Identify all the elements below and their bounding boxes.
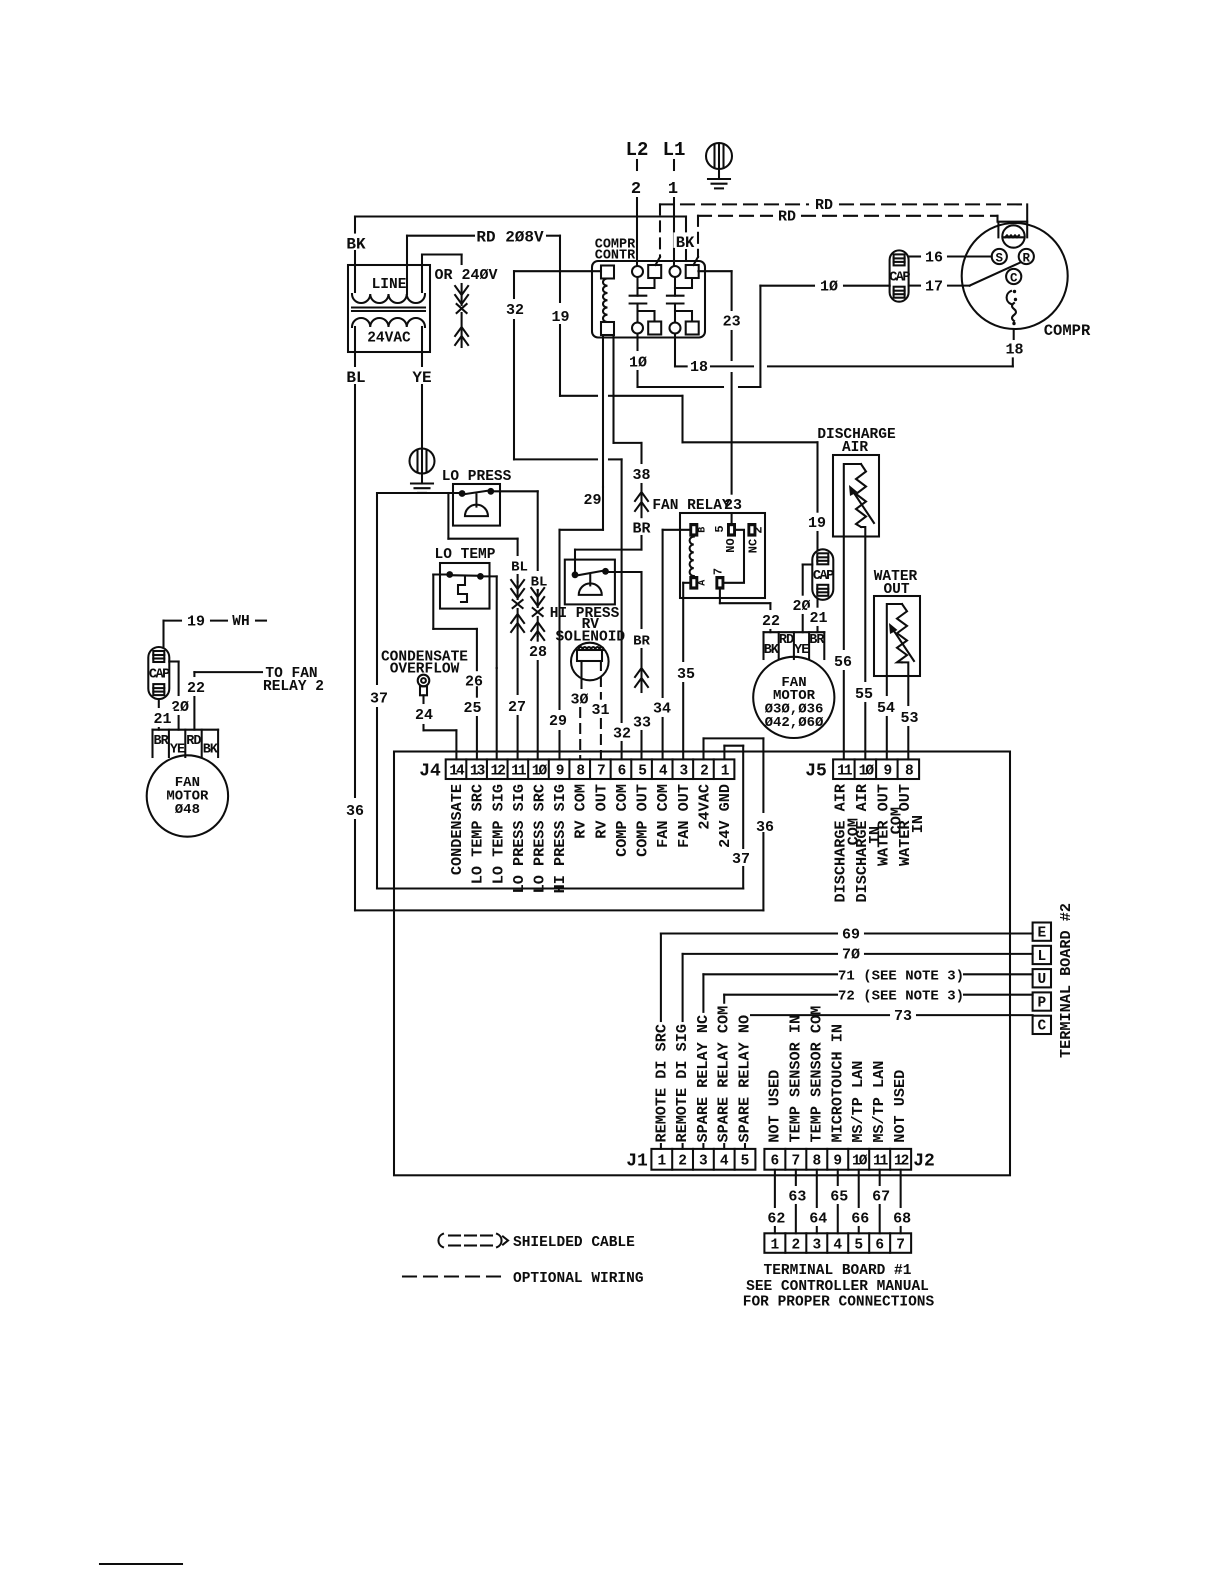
svg-text:AIR: AIR (842, 440, 868, 456)
wire 19 branch (612, 336, 614, 443)
wire 72 (724, 994, 837, 996)
svg-text:24: 24 (415, 707, 433, 724)
compressor internal overload housing (998, 222, 1027, 238)
svg-text:2: 2 (752, 526, 766, 533)
wire 30 (580, 661, 582, 688)
wire RD 208V (406, 236, 408, 294)
svg-text:12: 12 (491, 763, 506, 779)
svg-text:BR: BR (809, 633, 825, 648)
wire 17 (909, 285, 920, 287)
svg-text:SPARE RELAY COM: SPARE RELAY COM (715, 1006, 733, 1143)
svg-text:Ø42,Ø6Ø: Ø42,Ø6Ø (765, 715, 824, 731)
transformer 24VAC (348, 265, 430, 352)
svg-text:19: 19 (808, 515, 826, 532)
svg-text:COMP OUT: COMP OUT (634, 784, 652, 857)
svg-text:J5: J5 (805, 762, 827, 782)
svg-text:18: 18 (690, 359, 708, 376)
wire 29 (602, 336, 604, 487)
svg-text:4: 4 (833, 1237, 842, 1253)
svg-text:9: 9 (833, 1153, 842, 1169)
wire 19 WH (left motor) (164, 620, 182, 622)
compressor terminal R (1019, 249, 1034, 264)
svg-text:66: 66 (851, 1210, 869, 1227)
svg-text:1: 1 (668, 180, 678, 199)
svg-text:29: 29 (549, 713, 567, 730)
wire RD optional (upper dashed) (660, 203, 808, 205)
wire 10 (636, 334, 638, 351)
svg-text:HI PRESS SIG: HI PRESS SIG (551, 784, 569, 893)
svg-text:37: 37 (732, 851, 750, 868)
svg-text:3: 3 (812, 1237, 821, 1253)
svg-text:68: 68 (893, 1210, 911, 1227)
wire 62 (774, 1170, 776, 1207)
svg-text:BK: BK (764, 643, 780, 658)
svg-text:TEMP SENSOR COM: TEMP SENSOR COM (807, 1006, 825, 1143)
svg-text:COMP COM: COMP COM (613, 784, 631, 857)
fan motor 048 connector (151, 730, 153, 757)
svg-text:4: 4 (720, 1153, 729, 1169)
svg-text:FOR PROPER CONNECTIONS: FOR PROPER CONNECTIONS (743, 1295, 935, 1311)
svg-text:32: 32 (613, 725, 631, 742)
svg-text:16: 16 (925, 249, 943, 266)
wire TO FAN RELAY 2 (194, 671, 262, 673)
svg-text:WH: WH (232, 614, 249, 630)
wire 69 (661, 932, 837, 934)
relay coil pin B (689, 523, 698, 537)
svg-text:P: P (1037, 995, 1046, 1011)
ground (24VAC secondary) (410, 449, 435, 474)
wire 26 (480, 575, 496, 577)
svg-text:24VAC: 24VAC (367, 331, 411, 347)
J1 pin labels (654, 1022, 667, 1143)
svg-text:C: C (1037, 1019, 1046, 1035)
svg-text:5: 5 (713, 525, 727, 532)
svg-text:NC: NC (747, 539, 761, 553)
svg-text:29: 29 (583, 492, 601, 509)
svg-text:1Ø: 1Ø (629, 354, 647, 371)
wire 65 (837, 1170, 839, 1185)
wire 20 (left motor) (169, 660, 178, 662)
svg-text:C: C (1010, 271, 1018, 285)
svg-text:BR: BR (153, 734, 169, 749)
wire 21 (left motor) (158, 699, 160, 707)
svg-text:RV OUT: RV OUT (592, 784, 610, 839)
svg-text:CONDENSATE: CONDENSATE (448, 784, 466, 875)
wire L1 to contactor (673, 198, 675, 266)
svg-text:SPARE RELAY NC: SPARE RELAY NC (694, 1015, 712, 1143)
wire 54 (886, 676, 888, 695)
svg-text:38: 38 (632, 467, 650, 484)
contactor coil (603, 279, 608, 323)
svg-text:FAN COM: FAN COM (654, 784, 672, 848)
svg-text:MS/TP LAN: MS/TP LAN (870, 1061, 888, 1143)
svg-text:11: 11 (873, 1153, 889, 1169)
capacitor CAP (fan motor 030) (812, 549, 833, 600)
wire RD optional (lower dashed) (698, 215, 772, 217)
svg-text:R: R (1023, 251, 1031, 265)
relay pin 2 NC (747, 523, 756, 537)
svg-text:62: 62 (767, 1210, 785, 1227)
contactor coil terminals (601, 266, 614, 279)
svg-text:RELAY 2: RELAY 2 (263, 679, 324, 695)
wire 32 (514, 270, 601, 272)
wire 20 (right motor) (803, 563, 813, 565)
relay pin 7 (715, 576, 724, 590)
wire 73 (745, 1014, 889, 1016)
svg-text:SEE CONTROLLER MANUAL: SEE CONTROLLER MANUAL (746, 1279, 929, 1295)
svg-text:36: 36 (346, 803, 364, 820)
wire 38 (614, 442, 642, 444)
svg-text:TERMINAL BOARD #1: TERMINAL BOARD #1 (764, 1263, 912, 1279)
controller board outline (394, 752, 1010, 1176)
wire 53 (907, 676, 909, 705)
svg-text:LO TEMP SIG: LO TEMP SIG (489, 784, 507, 884)
svg-text:CAP: CAP (149, 668, 170, 683)
capacitor CAP (fan motor 048) (148, 647, 169, 699)
svg-text:1Ø: 1Ø (852, 1153, 868, 1169)
svg-text:2: 2 (791, 1237, 800, 1253)
svg-text:U: U (1037, 972, 1046, 988)
svg-text:25: 25 (463, 700, 481, 717)
svg-text:18: 18 (1005, 341, 1023, 358)
svg-text:J2: J2 (913, 1152, 935, 1172)
relay coil pin A (689, 576, 698, 590)
svg-text:BL: BL (511, 559, 528, 575)
svg-text:SHIELDED CABLE: SHIELDED CABLE (513, 1235, 635, 1251)
svg-text:6: 6 (771, 1153, 780, 1169)
wire 18 (674, 334, 676, 367)
svg-text:7: 7 (712, 568, 726, 575)
svg-text:MS/TP LAN: MS/TP LAN (849, 1061, 867, 1143)
wire 27 (447, 493, 449, 539)
fan motor 030/036/042/060 (753, 657, 834, 738)
svg-text:IN: IN (909, 815, 927, 833)
svg-text:27: 27 (508, 699, 526, 716)
svg-text:24V GND: 24V GND (716, 784, 734, 848)
svg-text:RD: RD (186, 734, 201, 749)
page artifact line (100, 1563, 182, 1565)
svg-text:34: 34 (653, 700, 671, 717)
fan motor 048 (147, 755, 228, 836)
svg-text:NOT USED: NOT USED (891, 1070, 909, 1143)
svg-text:2: 2 (631, 180, 641, 199)
svg-text:LO TEMP: LO TEMP (435, 547, 496, 563)
svg-text:YE: YE (794, 643, 809, 658)
svg-text:55: 55 (855, 686, 873, 703)
svg-text:32: 32 (506, 302, 524, 319)
svg-text:NO: NO (724, 538, 738, 552)
svg-text:J4: J4 (419, 762, 441, 782)
svg-text:22: 22 (187, 680, 205, 697)
svg-text:1: 1 (657, 1153, 666, 1169)
wire 56 (843, 537, 845, 650)
svg-text:FAN RELAY: FAN RELAY (652, 498, 731, 514)
svg-text:CAP: CAP (889, 271, 910, 286)
wire 31 (600, 661, 602, 699)
svg-text:L: L (1037, 949, 1046, 965)
wire 33 (606, 571, 642, 573)
svg-text:REMOTE DI SRC: REMOTE DI SRC (652, 1024, 670, 1142)
svg-text:TERMINAL BOARD #2: TERMINAL BOARD #2 (1057, 903, 1075, 1058)
compressor terminal C (1006, 269, 1021, 284)
svg-text:RD 2Ø8V: RD 2Ø8V (476, 229, 544, 247)
svg-text:53: 53 (900, 710, 918, 727)
svg-text:L1: L1 (663, 139, 686, 161)
contactor pole 1 (632, 266, 643, 277)
svg-text:BR: BR (633, 633, 650, 649)
wire 66 (858, 1170, 860, 1207)
ground (top, chassis) (706, 143, 732, 169)
wire 22 (fan relay 7 to fan motor) (719, 590, 721, 604)
svg-text:RD: RD (778, 209, 796, 226)
svg-text:FAN OUT: FAN OUT (675, 784, 693, 848)
wire 24 (422, 695, 424, 703)
wire 34 (663, 529, 690, 531)
svg-text:7: 7 (791, 1153, 800, 1169)
wire 37 (377, 492, 459, 494)
svg-text:21: 21 (153, 711, 171, 728)
svg-text:28: 28 (529, 644, 547, 661)
svg-text:6: 6 (875, 1237, 884, 1253)
svg-text:5: 5 (854, 1237, 863, 1253)
svg-text:J1: J1 (626, 1152, 648, 1172)
svg-text:3Ø: 3Ø (570, 691, 588, 708)
svg-text:13: 13 (470, 763, 485, 779)
svg-text:LINE: LINE (372, 277, 407, 293)
svg-text:24VAC: 24VAC (695, 784, 713, 830)
svg-text:TEMP SENSOR IN: TEMP SENSOR IN (786, 1015, 804, 1143)
wire 16 (909, 255, 920, 257)
relay pin 5 NO (727, 523, 736, 537)
wire 21 (right motor) (816, 600, 818, 607)
relay internal contact wire (724, 530, 744, 583)
svg-text:31: 31 (591, 702, 609, 719)
svg-text:NOT USED: NOT USED (765, 1070, 783, 1143)
svg-text:35: 35 (677, 666, 695, 683)
svg-text:73: 73 (894, 1008, 912, 1025)
svg-text:1: 1 (771, 1237, 780, 1253)
terminal board #2 (1033, 923, 1051, 941)
svg-text:RD: RD (815, 197, 833, 214)
svg-text:64: 64 (809, 1210, 827, 1227)
svg-text:14: 14 (449, 763, 465, 779)
svg-text:65: 65 (830, 1188, 848, 1205)
svg-text:11: 11 (837, 763, 853, 779)
svg-text:BR: BR (632, 520, 650, 537)
svg-text:MICROTOUCH IN: MICROTOUCH IN (828, 1024, 846, 1142)
wire 64 (816, 1170, 818, 1207)
wire 25 (433, 573, 449, 575)
svg-text:COMPR: COMPR (1044, 322, 1091, 340)
svg-text:69: 69 (842, 926, 860, 943)
svg-text:BK: BK (203, 743, 219, 758)
svg-text:LO PRESS SRC: LO PRESS SRC (530, 784, 548, 893)
svg-text:BK: BK (346, 236, 366, 254)
wire 70 (683, 953, 837, 955)
svg-text:54: 54 (877, 700, 895, 717)
svg-text:RV COM: RV COM (572, 784, 590, 839)
svg-text:E: E (1037, 926, 1046, 942)
svg-text:REMOTE DI SIG: REMOTE DI SIG (673, 1024, 691, 1142)
wire 35 (683, 582, 689, 584)
svg-text:1Ø: 1Ø (532, 763, 548, 779)
svg-text:LO TEMP SRC: LO TEMP SRC (469, 784, 487, 884)
wire 67 (879, 1170, 881, 1185)
svg-text:SPARE RELAY NO: SPARE RELAY NO (736, 1015, 754, 1143)
svg-text:23: 23 (723, 313, 741, 330)
relay coil (690, 537, 694, 576)
svg-text:8: 8 (812, 1153, 821, 1169)
wire 28 (491, 490, 538, 492)
svg-text:67: 67 (872, 1188, 890, 1205)
svg-text:Ø48: Ø48 (175, 802, 200, 818)
wire BK (355, 215, 686, 217)
svg-text:33: 33 (633, 714, 651, 731)
switch HI PRESS (565, 560, 615, 605)
svg-text:2: 2 (678, 1153, 687, 1169)
svg-text:71 (SEE NOTE 3): 71 (SEE NOTE 3) (838, 968, 964, 984)
compressor terminal S (992, 249, 1007, 264)
svg-text:OPTIONAL WIRING: OPTIONAL WIRING (513, 1271, 644, 1287)
svg-text:LO PRESS: LO PRESS (442, 469, 512, 485)
svg-text:19: 19 (551, 309, 569, 326)
wire OR 240V tap (421, 255, 423, 293)
svg-text:L2: L2 (626, 139, 649, 161)
wire 55 (864, 537, 866, 682)
terminal board #1 (764, 1233, 911, 1253)
svg-text:CAP: CAP (813, 569, 834, 584)
wire 68 (900, 1170, 902, 1207)
svg-text:RD: RD (779, 633, 794, 648)
capacitor CAP (compressor) (890, 250, 909, 301)
svg-text:OR 24ØV: OR 24ØV (434, 267, 497, 284)
wire L2 to contactor (636, 198, 638, 266)
svg-text:17: 17 (925, 278, 943, 295)
legend shielded cable (438, 1234, 443, 1247)
svg-text:72 (SEE NOTE 3): 72 (SEE NOTE 3) (838, 989, 964, 1005)
svg-text:56: 56 (834, 654, 852, 671)
disconnect (240V tap) (461, 284, 463, 305)
wire 63 (795, 1170, 797, 1185)
compressor COMPR (962, 223, 1068, 329)
svg-text:A: A (698, 580, 709, 586)
svg-text:21: 21 (809, 610, 827, 627)
svg-text:B: B (698, 527, 709, 533)
svg-text:37: 37 (370, 690, 388, 707)
svg-text:19: 19 (187, 613, 205, 630)
wire 23 (698, 270, 731, 272)
svg-text:3: 3 (699, 1153, 708, 1169)
svg-text:36: 36 (756, 819, 774, 836)
svg-text:LO PRESS SIG: LO PRESS SIG (510, 784, 528, 893)
wire 71 (703, 973, 837, 975)
contactor pole 2 (670, 266, 681, 277)
svg-text:S: S (996, 251, 1004, 265)
svg-text:7Ø: 7Ø (842, 947, 860, 964)
wire BL / 36 (354, 327, 356, 366)
svg-text:11: 11 (511, 763, 527, 779)
wire YE to ground (421, 327, 423, 366)
svg-text:5: 5 (741, 1153, 750, 1169)
legend optional wiring (403, 1275, 508, 1277)
svg-text:1Ø: 1Ø (820, 279, 838, 296)
svg-text:12: 12 (894, 1153, 909, 1169)
svg-text:1Ø: 1Ø (859, 763, 875, 779)
wire 22 (left motor) (193, 672, 195, 676)
fan motor 030 connector (762, 632, 764, 659)
svg-text:63: 63 (788, 1188, 806, 1205)
compressor internal protector (1007, 291, 1011, 304)
svg-text:26: 26 (465, 673, 483, 690)
svg-text:7: 7 (896, 1237, 905, 1253)
svg-text:22: 22 (762, 613, 780, 630)
